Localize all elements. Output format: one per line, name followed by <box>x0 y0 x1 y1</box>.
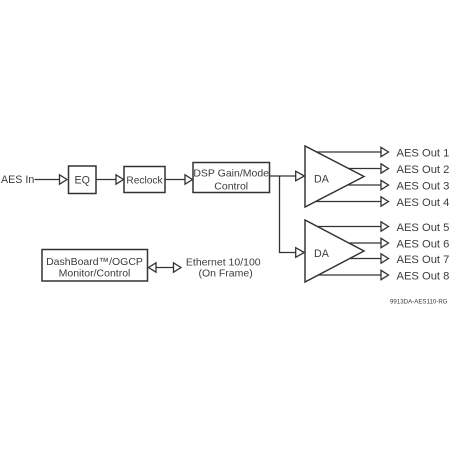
svg-text:AES Out 7: AES Out 7 <box>397 254 450 266</box>
wire EQ to Reclock <box>96 179 117 181</box>
svg-text:Control: Control <box>214 181 248 193</box>
wire DA2 output 4 <box>318 274 382 276</box>
arrowhead AES Out 3 <box>381 180 389 189</box>
svg-text:DSP Gain/Mode: DSP Gain/Mode <box>193 167 269 179</box>
arrowhead into DA1 <box>296 171 305 181</box>
wire AES In to EQ <box>35 179 61 181</box>
wire DA2 output 2 <box>349 242 382 244</box>
svg-text:DA: DA <box>314 248 330 260</box>
svg-text:AES Out 2: AES Out 2 <box>397 164 450 176</box>
arrowhead AES Out 7 <box>381 254 389 263</box>
svg-text:AES Out 5: AES Out 5 <box>397 222 450 234</box>
svg-text:AES In: AES In <box>1 174 34 186</box>
wire DA1 output 3 <box>348 184 382 186</box>
svg-text:AES Out 1: AES Out 1 <box>397 148 450 160</box>
svg-text:AES Out 6: AES Out 6 <box>397 239 450 251</box>
arrowhead into EQ <box>60 175 68 184</box>
svg-text:EQ: EQ <box>74 175 89 187</box>
arrowhead AES Out 4 <box>381 197 389 206</box>
block DashBoard/OGCP Monitor/Control <box>42 250 148 282</box>
svg-text:(On Frame): (On Frame) <box>198 267 252 279</box>
arrowhead AES Out 8 <box>381 270 389 279</box>
svg-text:DashBoard™/OGCP: DashBoard™/OGCP <box>46 256 143 268</box>
block EQ <box>69 166 97 194</box>
wire DA2 output 3 <box>350 258 382 260</box>
wire DA1 output 1 <box>317 151 382 153</box>
wire DA1 output 2 <box>349 168 383 170</box>
amplifier DA1 <box>305 146 364 207</box>
block Reclock <box>124 167 165 193</box>
svg-text:AES Out 3: AES Out 3 <box>397 181 450 193</box>
wire DA1 output 4 <box>316 201 382 203</box>
bidirectional wire DashBoard to Ethernet <box>154 267 175 269</box>
arrowhead toward DashBoard <box>149 263 157 272</box>
arrowhead into DSP <box>185 175 193 184</box>
arrowhead AES Out 2 <box>381 164 389 173</box>
svg-text:Monitor/Control: Monitor/Control <box>59 267 131 279</box>
wire branch down at junction <box>280 176 298 253</box>
block DSP Gain/Mode Control <box>193 163 270 193</box>
svg-text:Reclock: Reclock <box>126 176 163 187</box>
svg-text:AES Out 4: AES Out 4 <box>397 197 450 209</box>
node Ethernet label <box>186 257 261 280</box>
svg-text:AES Out 8: AES Out 8 <box>397 271 450 283</box>
arrowhead toward Ethernet <box>174 263 182 272</box>
wire DSP to DA1 <box>270 175 298 177</box>
amplifier DA2 <box>305 220 364 282</box>
wire Reclock to DSP <box>165 179 186 181</box>
arrowhead AES Out 1 <box>381 147 389 156</box>
wire DA2 output 1 <box>317 226 382 228</box>
svg-text:DA: DA <box>314 174 330 186</box>
arrowhead into Reclock <box>116 175 124 184</box>
arrowhead AES Out 5 <box>381 222 389 231</box>
arrowhead AES Out 6 <box>381 238 389 247</box>
arrowhead into DA2 <box>296 248 305 258</box>
svg-text:9913DA-AES110-RG: 9913DA-AES110-RG <box>390 298 448 305</box>
